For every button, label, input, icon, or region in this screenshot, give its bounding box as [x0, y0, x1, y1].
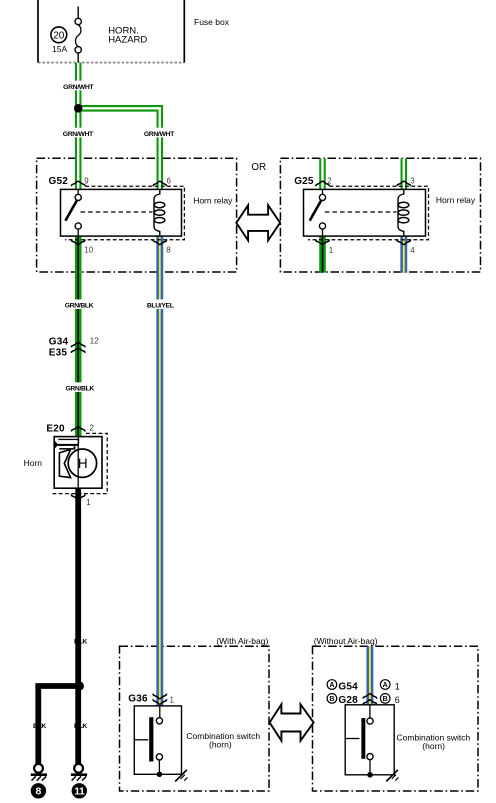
svg-text:B: B	[329, 696, 334, 703]
svg-text:(Without Air-bag): (Without Air-bag)	[314, 636, 378, 646]
svg-text:GRN/WHT: GRN/WHT	[144, 131, 175, 138]
svg-text:1: 1	[86, 498, 91, 507]
svg-text:HAZARD: HAZARD	[108, 34, 147, 45]
svg-text:Horn: Horn	[24, 458, 43, 468]
svg-text:(horn): (horn)	[422, 741, 445, 751]
svg-text:Fuse box: Fuse box	[194, 17, 230, 27]
svg-text:8: 8	[166, 245, 171, 254]
svg-text:1: 1	[170, 695, 175, 704]
svg-text:Horn relay: Horn relay	[436, 195, 476, 205]
svg-text:H: H	[78, 456, 88, 471]
svg-text:A: A	[383, 682, 388, 689]
svg-text:12: 12	[90, 337, 99, 346]
svg-text:G36: G36	[128, 694, 148, 705]
svg-text:A: A	[329, 682, 334, 689]
svg-text:Horn relay: Horn relay	[193, 195, 233, 205]
svg-text:(With Air-bag): (With Air-bag)	[216, 636, 268, 646]
svg-text:E35: E35	[49, 348, 68, 359]
svg-text:6: 6	[395, 695, 400, 705]
svg-text:1: 1	[329, 246, 334, 255]
svg-text:GRN/WHT: GRN/WHT	[63, 131, 94, 138]
svg-text:9: 9	[84, 176, 89, 185]
svg-text:G52: G52	[49, 176, 69, 187]
svg-text:10: 10	[84, 245, 93, 254]
svg-text:6: 6	[167, 176, 172, 185]
svg-text:4: 4	[410, 246, 415, 255]
svg-text:BLU/YEL: BLU/YEL	[147, 303, 174, 310]
svg-text:1: 1	[395, 681, 400, 691]
svg-text:E20: E20	[46, 423, 65, 434]
svg-text:OR: OR	[251, 162, 266, 173]
svg-text:G34: G34	[49, 337, 69, 348]
svg-text:20: 20	[53, 30, 65, 41]
svg-text:GRN/WHT: GRN/WHT	[63, 84, 94, 91]
svg-text:3: 3	[410, 176, 415, 185]
svg-text:15A: 15A	[52, 44, 67, 54]
svg-text:8: 8	[35, 785, 41, 797]
svg-text:G54: G54	[338, 681, 358, 692]
svg-text:B: B	[383, 696, 388, 703]
svg-text:2: 2	[89, 424, 94, 433]
svg-text:GRN/BLK: GRN/BLK	[65, 386, 94, 393]
svg-text:(horn): (horn)	[209, 740, 232, 750]
svg-text:G25: G25	[294, 176, 314, 187]
svg-text:GRN/BLK: GRN/BLK	[65, 303, 94, 310]
svg-text:11: 11	[74, 785, 85, 797]
